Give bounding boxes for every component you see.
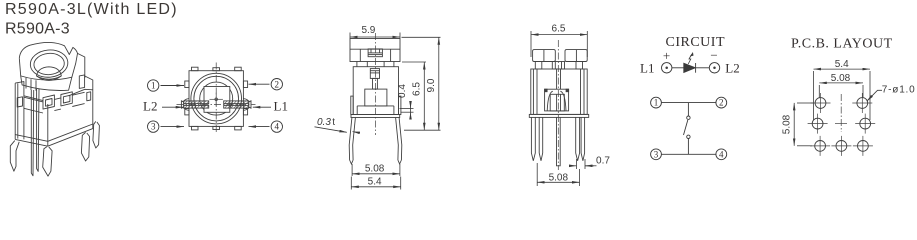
svg-text:1: 1 (151, 81, 156, 91)
svg-text:t: t (332, 117, 335, 128)
svg-text:5.08: 5.08 (365, 164, 385, 175)
svg-text:2: 2 (275, 79, 280, 89)
svg-text:5.08: 5.08 (831, 73, 851, 84)
svg-text:5.4: 5.4 (368, 176, 382, 187)
svg-text:7-ø1.0: 7-ø1.0 (882, 84, 916, 95)
svg-text:+: + (663, 48, 670, 63)
svg-text:6.5: 6.5 (412, 82, 423, 96)
svg-text:0.3: 0.3 (317, 117, 331, 128)
svg-text:R590A-3L(With LED): R590A-3L(With LED) (5, 1, 178, 18)
svg-text:L2: L2 (143, 98, 157, 113)
svg-text:−: − (710, 47, 717, 62)
svg-text:0.7: 0.7 (596, 155, 610, 166)
svg-text:1: 1 (654, 98, 659, 108)
svg-text:2: 2 (719, 98, 724, 108)
svg-text:3: 3 (654, 149, 659, 159)
svg-text:5.4: 5.4 (835, 59, 849, 70)
svg-text:R590A-3: R590A-3 (5, 20, 70, 37)
svg-text:5.9: 5.9 (361, 25, 375, 36)
svg-text:4: 4 (719, 149, 724, 159)
svg-text:L1: L1 (274, 98, 288, 113)
svg-text:L2: L2 (725, 61, 739, 76)
svg-text:5.08: 5.08 (549, 172, 569, 183)
svg-text:5.08: 5.08 (782, 114, 793, 134)
svg-text:L1: L1 (640, 61, 654, 76)
svg-text:6.5: 6.5 (552, 24, 566, 35)
svg-text:9.0: 9.0 (426, 78, 437, 92)
svg-text:0.4: 0.4 (397, 84, 408, 98)
svg-text:4: 4 (275, 122, 280, 132)
svg-text:P.C.B. LAYOUT: P.C.B. LAYOUT (791, 37, 893, 52)
svg-text:3: 3 (151, 122, 156, 132)
